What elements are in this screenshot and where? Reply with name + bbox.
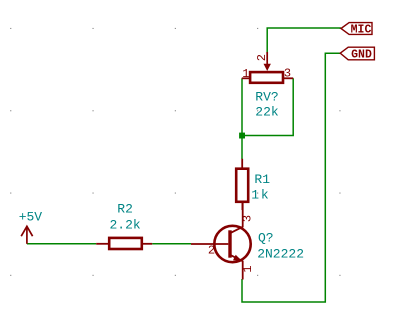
svg-text:Q?: Q? <box>258 230 274 245</box>
svg-text:1: 1 <box>242 67 249 81</box>
svg-text:2N2222: 2N2222 <box>257 247 304 262</box>
resistor R2 <box>96 201 152 249</box>
svg-text:1: 1 <box>241 265 255 272</box>
junction <box>239 133 245 139</box>
wire <box>27 243 96 245</box>
svg-text:3: 3 <box>241 215 255 222</box>
svg-text:22k: 22k <box>255 105 279 120</box>
svg-text:R1: R1 <box>254 172 270 187</box>
wire <box>242 53 341 302</box>
svg-text:GND: GND <box>351 49 372 62</box>
wire <box>244 78 293 135</box>
svg-text:R2: R2 <box>117 201 133 216</box>
power +5V <box>19 210 43 244</box>
transistor Q1 <box>191 203 304 280</box>
wire <box>267 28 341 54</box>
wire <box>241 78 243 159</box>
svg-text:3: 3 <box>284 67 291 81</box>
potentiometer RV1 <box>242 52 293 120</box>
svg-text:1: 1 <box>251 187 259 202</box>
svg-text:k: k <box>261 187 269 202</box>
svg-text:2: 2 <box>255 54 269 61</box>
wire <box>152 243 191 245</box>
svg-text:+5V: +5V <box>19 210 43 225</box>
global label MIC <box>341 23 372 37</box>
svg-text:RV?: RV? <box>255 89 278 104</box>
svg-text:MIC: MIC <box>351 24 372 37</box>
global label GND <box>340 47 374 61</box>
resistor R1 <box>236 159 270 210</box>
svg-text:2.2k: 2.2k <box>109 218 140 233</box>
svg-text:2: 2 <box>208 244 215 258</box>
